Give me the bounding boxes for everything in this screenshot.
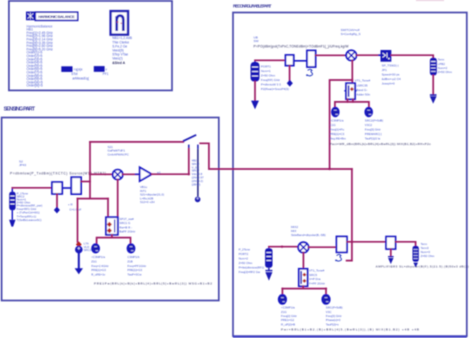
- DC block C8: [52, 182, 62, 194]
- SPDT drop wires: [107, 199, 109, 218]
- VT1 bottom bar: [347, 99, 349, 102]
- svg-text:SP_TSW2(-): SP_TSW2(-): [382, 64, 399, 68]
- svg-text:Freq=2.4GHz: Freq=2.4GHz: [91, 264, 109, 268]
- reconfigurable box bottom edge emphasis: [233, 336, 467, 338]
- svg-text:Z=50 Ohm: Z=50 Ohm: [239, 261, 253, 265]
- svg-text:Freq[2]=RF2 Gw: Freq[2]=RF2 Gw: [239, 270, 261, 274]
- svg-text:Z1G: Z1G: [91, 259, 97, 263]
- ground below PORT1: [9, 220, 15, 227]
- mixer MIX2: [298, 242, 308, 252]
- svg-text:C1G: C1G: [330, 123, 337, 127]
- wire mixer to amp: [123, 173, 140, 175]
- svg-text:Joseph=0: Joseph=0: [382, 82, 395, 86]
- svg-text:Z=50 Ohm: Z=50 Ohm: [261, 74, 276, 78]
- svg-text:TauP[2]=x: TauP[2]=x: [326, 322, 339, 326]
- reconfigurable part box frame: [233, 13, 467, 337]
- ground below TERM2: [430, 95, 437, 102]
- wire port to DC block: [255, 59, 286, 61]
- svg-text:SideBand=dbpolar(B,-SB): SideBand=dbpolar(B,-SB): [291, 233, 326, 237]
- svg-text:T(SelBcLwance5C): T(SelBcLwance5C): [17, 218, 42, 222]
- stem below V_DC: [78, 253, 80, 269]
- port P_2Tone PORT2: [265, 247, 272, 268]
- svg-text:R_uRE=1v: R_uRE=1v: [91, 273, 106, 277]
- stray top edge mark: [416, 0, 444, 1]
- wire mixer down to VT1: [351, 61, 353, 84]
- PORT1 text: [17, 191, 43, 222]
- source text column 1: [91, 255, 109, 277]
- svg-text:Z=50 Ohm: Z=50 Ohm: [421, 254, 435, 258]
- mixer MIX1 sensing: [113, 170, 123, 180]
- svg-text:Band G-: Band G-: [356, 88, 367, 92]
- V source V4 bottom: [322, 295, 330, 305]
- SPDT text: [119, 217, 136, 234]
- sensing part box frame: [2, 118, 219, 301]
- feedback riser wire: [89, 142, 91, 199]
- MeasEqn block Meas1: [61, 66, 72, 72]
- svg-text:SRC3: SRC3: [84, 248, 92, 252]
- svg-text:PORT2: PORT2: [239, 252, 249, 256]
- svg-text:C3MP1/b: C3MP1/b: [127, 255, 139, 259]
- VT1 text: [355, 79, 371, 97]
- wire switch to amp output: [188, 149, 190, 174]
- choke glyph below BPF: [337, 254, 342, 261]
- wire switch output: [200, 143, 233, 169]
- svg-text:SW: SW: [254, 39, 259, 43]
- lower bias wire: [78, 198, 109, 200]
- port P_1Tone PORT1: [9, 188, 15, 220]
- svg-text:Freq[3] GHz: Freq[3] GHz: [365, 128, 381, 132]
- svg-text:RECONFIGURABLE PART: RECONFIGURABLE PART: [233, 4, 272, 9]
- svg-text:Freq=PF1GHz: Freq=PF1GHz: [127, 264, 146, 268]
- PORT1 text: [261, 65, 289, 92]
- ground arrow bottom left: [75, 268, 83, 274]
- svg-text:CmbAPMAV,PC: CmbAPMAV,PC: [108, 152, 130, 156]
- bias drop wire left: [77, 199, 79, 242]
- VT1 component: [344, 83, 356, 99]
- svg-text:P=list(dbmtow(RF1): P=list(dbmtow(RF1): [239, 265, 265, 269]
- branch wire to junction: [330, 80, 353, 169]
- amplifier block AMPLIFIER3: [386, 237, 395, 249]
- V source right sensing: [127, 244, 135, 253]
- NetlistInclude icon box n: [111, 11, 128, 34]
- svg-text:VT1_Tone#: VT1_Tone#: [355, 79, 371, 83]
- feedback top wire: [90, 141, 183, 143]
- wire mixer2 down: [302, 253, 304, 269]
- svg-text:Reg.RE=Bm: Reg.RE=Bm: [330, 137, 347, 141]
- svg-text:arMeasEq(: arMeasEq(: [72, 76, 89, 80]
- stub below amplifier: [390, 249, 392, 256]
- HB controller banner HARMONIC BALANCE: [35, 12, 77, 20]
- svg-text:HARMONIC BALANCE: HARMONIC BALANCE: [38, 14, 75, 19]
- node dot: [89, 173, 91, 175]
- wire feed block to riser: [81, 181, 90, 183]
- ground below TERM3: [413, 263, 418, 268]
- mixer MIX1: [345, 50, 357, 60]
- svg-text:Freq(RF) GHz: Freq(RF) GHz: [261, 78, 280, 82]
- svg-text:JP1: JP1: [382, 68, 388, 72]
- wire feed to mixer: [316, 54, 345, 56]
- DC feed top row: [307, 51, 316, 68]
- V source left sensing: [92, 244, 100, 253]
- amplifier AMP1: [140, 167, 152, 181]
- V_DC circle SRC3: [76, 246, 83, 253]
- TERM2 text: [438, 58, 453, 75]
- svg-text:<C3MP1/a: <C3MP1/a: [91, 255, 105, 259]
- svg-text:(2B=2): (2B=2): [192, 182, 201, 186]
- svg-text:TauP=3Cw: TauP=3Cw: [127, 273, 142, 277]
- svg-text:PORT1: PORT1: [261, 65, 271, 69]
- wire amp to term3: [396, 242, 416, 246]
- svg-text:Pact=WR_dBm(BRL[k]+BRL[4]+BwRL: Pact=WR_dBm(BRL[k]+BRL[4]+BwRL[3]) MIX{B…: [330, 142, 431, 146]
- svg-text:Pwr=BRL{B1+B2,(B)+BRL[4]5,(BwR: Pwr=BRL{B1+B2,(B)+BRL[4]5,(BwRL[3]),(B) …: [281, 328, 419, 332]
- VT2 text: [309, 269, 325, 286]
- MeasEqn block PF1: [94, 66, 105, 72]
- wire crossing to reconfigurable box: [233, 168, 352, 170]
- svg-text:PRE1Pw(BRL[k]+B[k]+BRL[4]+BRL[: PRE1Pw(BRL[k]+B[k]+BRL[4]+BRL[5]+BwRL[3]…: [94, 281, 212, 285]
- svg-text:TauP[1]/2 la: TauP[1]/2 la: [365, 137, 381, 141]
- svg-text:P=dbmtoW 3 3: P=dbmtoW 3 3: [261, 83, 281, 87]
- svg-text:F=PF 2GHz: F=PF 2GHz: [309, 281, 325, 285]
- svg-text:+ R: + R: [68, 203, 73, 207]
- svg-text:PRE[1]=G3: PRE[1]=G3: [91, 268, 106, 272]
- VT2 bottom bar: [302, 286, 304, 288]
- BPF block: [337, 237, 347, 253]
- V source V1 top: [332, 107, 339, 116]
- lead to feed: [294, 60, 307, 62]
- source text column 2: [127, 255, 146, 277]
- svg-text:JP43: JP43: [19, 163, 26, 167]
- amp output wire: [152, 173, 189, 175]
- ground diamond below DC block: [287, 80, 293, 87]
- svg-text:LSRC35: LSRC35: [356, 83, 368, 87]
- TERM3 text: [421, 242, 435, 258]
- red marks inside n icon: [117, 21, 119, 23]
- NetlistInclude parameter text: [112, 36, 133, 61]
- wire mixer to switch: [356, 54, 380, 56]
- ground diamond below DC block: [54, 207, 60, 214]
- svg-text:R_uP[2]=B: R_uP[2]=B: [281, 322, 295, 326]
- svg-text:S=ConfigRg_S: S=ConfigRg_S: [341, 32, 361, 36]
- I_Probe red diamond: [76, 241, 82, 247]
- svg-text:P_2Tone: P_2Tone: [239, 247, 251, 251]
- svg-text:SRC2(P=5dB): SRC2(P=5dB): [365, 119, 383, 123]
- SPDT bottom bar: [97, 238, 131, 244]
- DC block top row: [286, 55, 294, 66]
- port PORT1 reconfigurable: [251, 60, 260, 101]
- svg-text:<C3MP1/a: <C3MP1/a: [330, 119, 344, 123]
- ground below PORT1: [251, 101, 259, 110]
- V2 text column: [365, 119, 383, 141]
- svg-text:Z=50 Ohm: Z=50 Ohm: [438, 70, 453, 74]
- choke glyph below feed: [308, 69, 313, 76]
- V_DC source dot: [195, 197, 201, 203]
- V source V3 bottom: [278, 295, 286, 305]
- VT2 component: [299, 269, 308, 286]
- svg-text:PREMARC[ ]: PREMARC[ ]: [365, 132, 382, 136]
- wire mixer2 to BPF: [309, 246, 337, 248]
- wire BPF to amp block: [347, 241, 386, 243]
- wire down to lower chain: [351, 169, 353, 242]
- wire switch to term: [391, 55, 433, 58]
- term TERM2 top right: [430, 58, 437, 95]
- stub below DC block: [56, 194, 58, 207]
- V_DC text: [192, 159, 204, 187]
- svg-text:C=1.0 uF: C=1.0 uF: [69, 207, 81, 211]
- lead between blocks: [62, 187, 71, 189]
- svg-text:Num=1: Num=1: [261, 69, 271, 73]
- svg-text:P2(Rear)=SnccP4(3): P2(Rear)=SnccP4(3): [261, 87, 289, 91]
- stub below junction: [347, 242, 352, 261]
- svg-text:Order[B]=5: Order[B]=5: [27, 84, 43, 88]
- svg-text:Speed=30 ps: Speed=30 ps: [382, 73, 400, 77]
- V1 text column: [330, 119, 347, 141]
- wire riser to mixer: [90, 173, 113, 175]
- svg-text:w1: w1: [157, 170, 161, 174]
- stub below DC block: [289, 66, 291, 81]
- svg-text:Adder 50n: Adder 50n: [356, 92, 370, 96]
- svg-text:SENSING PART: SENSING PART: [4, 107, 36, 113]
- V_DC line SRC7: [197, 149, 199, 197]
- svg-text:S12=0 +2H: S12=0 +2H: [140, 200, 155, 204]
- ground below PORT2: [265, 271, 272, 279]
- svg-text:STot: STot: [71, 72, 77, 76]
- lead tick left of switch: [378, 54, 380, 56]
- term TERM3: [413, 246, 419, 262]
- svg-text:Num=2: Num=2: [239, 256, 249, 260]
- switch SW blade: [183, 135, 196, 141]
- DC feed block: [71, 177, 81, 194]
- svg-text:AMPLIFIER3 SL=dbpolar(B(F),S(2: AMPLIFIER3 SL=dbpolar(B(F),S(21.5),(B)50…: [376, 264, 469, 268]
- svg-text:&dBm=-p2 O4: &dBm=-p2 O4: [382, 77, 401, 81]
- svg-text:V3C2: V3C2: [365, 123, 373, 127]
- svg-text:BaPF 2GHz: BaPF 2GHz: [119, 230, 136, 234]
- wire port to mixer2: [269, 246, 298, 248]
- HB controller icon: [26, 12, 35, 21]
- switch contacts: [188, 145, 190, 149]
- amp parameter text: [140, 185, 164, 204]
- SPDT switch SRC1: [106, 217, 118, 235]
- SP2T switch filled block: [381, 50, 392, 62]
- port P_2Tone text: [239, 247, 265, 273]
- svg-text:PF1: PF1: [103, 72, 109, 76]
- V4 text column: [326, 306, 343, 327]
- simulation controller box frame: [9, 1, 172, 91]
- svg-text:Z1B: Z1B: [127, 259, 132, 263]
- svg-text:P=PO(dBm)pol(TxPxC,TONEdBm)+TO: P=PO(dBm)pol(TxPxC,TONEdBm)+TOdBmF1{_}/U…: [254, 45, 350, 49]
- svg-text:PRE[1]=C3: PRE[1]=C3: [330, 132, 345, 136]
- wire source to DC block: [12, 187, 52, 189]
- V3 text column: [281, 306, 297, 327]
- ground below amplifier: [388, 257, 394, 263]
- SP2T text: [382, 64, 401, 86]
- svg-text:PRE[1]=G3: PRE[1]=G3: [127, 268, 142, 272]
- svg-text:&Sled A: &Sled A: [112, 61, 125, 65]
- V source V2 top: [365, 107, 372, 116]
- svg-text:Freq[1]=Pu: Freq[1]=Pu: [330, 128, 345, 132]
